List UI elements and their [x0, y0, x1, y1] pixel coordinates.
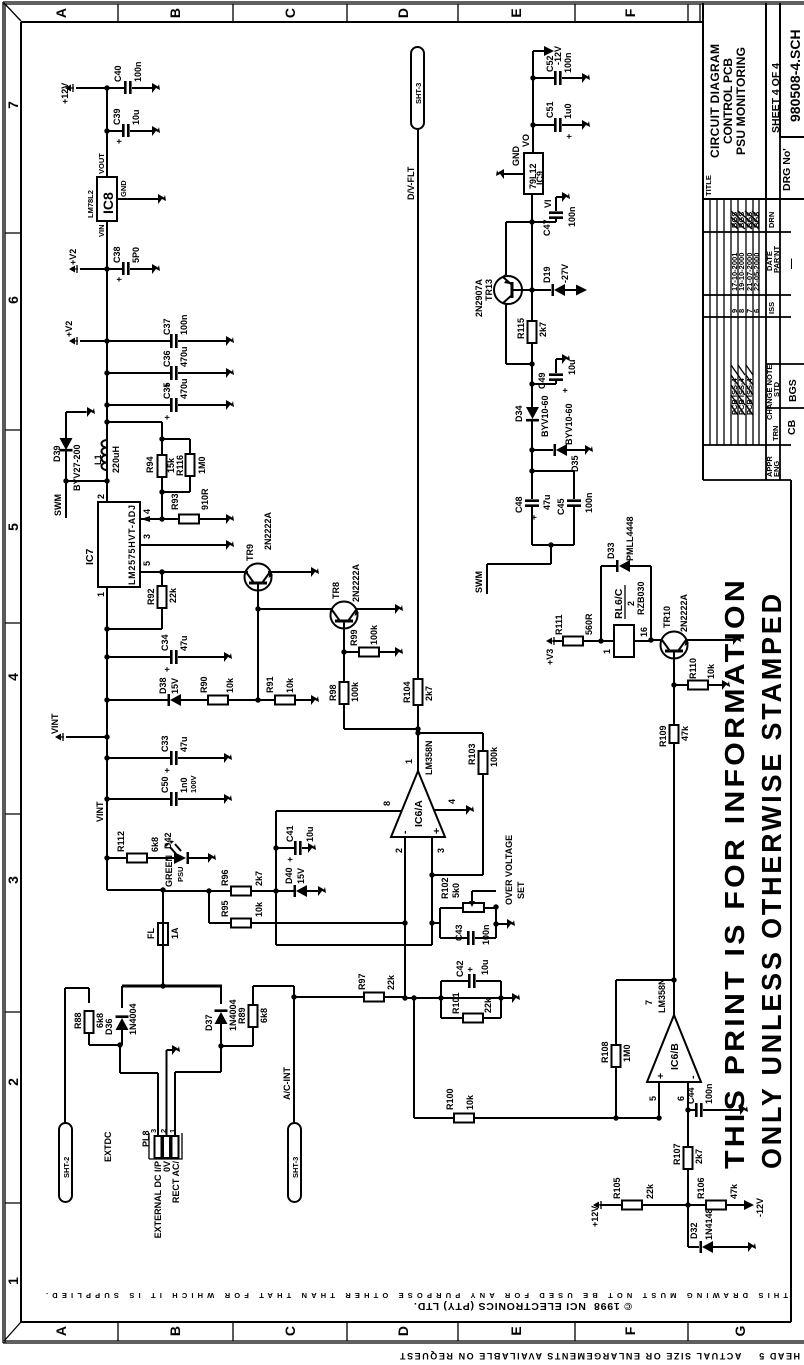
junction base TR8 drop	[255, 606, 260, 611]
svg-text:7: 7	[5, 101, 21, 109]
svg-text:100k: 100k	[369, 624, 379, 645]
node -12V output wire	[533, 51, 544, 153]
svg-text:100n: 100n	[704, 1083, 714, 1104]
pin 4 wire of IC7 with arrow	[140, 509, 162, 522]
zener D40 15V	[284, 867, 326, 897]
junction D39 rail	[104, 478, 109, 483]
regulator IC9 79L12	[511, 134, 553, 208]
svg-text:R93: R93	[170, 493, 180, 510]
resistor R115 2k7	[516, 318, 548, 343]
svg-text:5: 5	[142, 561, 152, 566]
svg-text:R106: R106	[696, 1177, 706, 1199]
svg-text:1: 1	[404, 759, 414, 764]
svg-text:10k: 10k	[465, 1094, 475, 1110]
svg-text:C50: C50	[160, 776, 170, 793]
junction C50 rail	[104, 796, 109, 801]
svg-text:2k7: 2k7	[424, 686, 434, 701]
svg-text:RZB030: RZB030	[636, 581, 646, 615]
svg-text:GREEN: GREEN	[164, 855, 174, 887]
junction R116 left	[159, 489, 164, 494]
svg-text:2k7: 2k7	[538, 322, 548, 337]
junction C35 rail	[104, 402, 109, 407]
svg-text:10u: 10u	[480, 959, 490, 975]
led D42 GREEN PSU	[163, 832, 216, 887]
svg-text:SET: SET	[516, 881, 526, 899]
svg-text:R91: R91	[265, 676, 275, 693]
svg-text:LM358N: LM358N	[424, 740, 434, 775]
svg-text:CB: CB	[786, 419, 798, 435]
svg-text:R96: R96	[220, 869, 230, 886]
pin 1 output wire IC6/A	[404, 733, 418, 771]
resistor R116 1M0 parallel loop	[162, 439, 207, 492]
resistor R93 910R	[162, 488, 234, 524]
junction SWM D39	[63, 478, 68, 483]
junction TR13 collector rail	[529, 361, 534, 366]
svg-text:A/C-INT: A/C-INT	[282, 1067, 292, 1100]
svg-text:+: +	[431, 828, 443, 834]
svg-text:2: 2	[96, 494, 106, 499]
junction pin3 R103 riser	[429, 872, 434, 877]
pin 2 wire IC6/A	[394, 837, 405, 998]
diode D33 PMLL4448 flyback	[601, 516, 651, 641]
node D/V-FLT line	[417, 129, 419, 729]
left band row ticks	[118, 1322, 688, 1341]
top band column ticks	[5, 233, 21, 1203]
svg-text:THIS PRINT IS FOR INFORMATION: THIS PRINT IS FOR INFORMATION	[719, 577, 750, 1169]
resistor R91 10k	[258, 676, 319, 705]
junction R92 pin5	[159, 569, 164, 574]
loop sides C48 C45	[532, 471, 574, 545]
svg-text:47k: 47k	[729, 1183, 739, 1199]
svg-text:GND: GND	[511, 146, 521, 167]
svg-text:SHT-3: SHT-3	[291, 1157, 300, 1178]
svg-text:+: +	[285, 857, 295, 862]
svg-text:22-05-2000: 22-05-2000	[752, 253, 761, 291]
svg-text:CONTROL PCB: CONTROL PCB	[721, 58, 735, 144]
wire R94 node to rail drop	[107, 422, 162, 519]
svg-text:TRN: TRN	[771, 426, 780, 441]
opamp IC6/A LM358N	[391, 740, 445, 837]
diode D37 1N4004	[204, 986, 238, 1046]
wire PL8 pin1	[175, 1046, 221, 1136]
power flag VINT	[50, 713, 107, 741]
resistor R110 10k	[674, 658, 730, 690]
svg-text:16: 16	[639, 627, 649, 637]
svg-text:B: B	[167, 1326, 183, 1336]
junction C49 rail	[529, 381, 534, 386]
svg-text:+: +	[655, 1073, 667, 1079]
pin 5 wire IC6/B	[648, 1082, 659, 1118]
svg-text:IC6/A: IC6/A	[413, 800, 425, 827]
svg-text:R108: R108	[600, 1041, 610, 1063]
svg-text:910R: 910R	[200, 488, 210, 510]
svg-text:CIRCUIT DIAGRAM: CIRCUIT DIAGRAM	[708, 44, 722, 158]
ground IC8 gnd pin	[117, 194, 166, 204]
svg-text:R90: R90	[199, 676, 209, 693]
svg-text:C: C	[282, 1326, 298, 1336]
resistor R95 10k	[209, 891, 405, 928]
svg-text:D37: D37	[204, 1014, 214, 1031]
svg-text:1n0: 1n0	[179, 777, 189, 793]
svg-text:VO: VO	[521, 134, 531, 147]
power flag +V3	[545, 637, 555, 665]
svg-text:BGS: BGS	[787, 379, 799, 402]
revision table labels	[765, 212, 781, 477]
wire EXTDC to sheet flag	[64, 988, 66, 1123]
label over voltage set	[504, 835, 526, 905]
svg-text:100k: 100k	[350, 681, 360, 702]
svg-text:3: 3	[149, 1129, 158, 1133]
node pin2 column	[405, 997, 501, 999]
svg-text:1N4148: 1N4148	[704, 1208, 714, 1240]
regulator IC8 LM78L2	[86, 153, 128, 237]
zener D19 27V	[532, 264, 587, 296]
junction VINT rail	[104, 734, 109, 739]
svg-text:EXTDC: EXTDC	[103, 1131, 113, 1162]
junction loop D35 line	[529, 468, 534, 473]
junction C33 rail	[104, 755, 109, 760]
svg-text:ENG: ENG	[772, 461, 781, 477]
svg-text:SHEET 4 OF 4: SHEET 4 OF 4	[770, 63, 782, 133]
junction C37 rail	[104, 338, 109, 343]
junction C42 top	[438, 995, 443, 1000]
resistor R99 100k	[344, 624, 403, 657]
junction R103 output	[415, 730, 420, 735]
wire R100 branch	[414, 998, 454, 1118]
svg-text:470u: 470u	[179, 378, 189, 399]
svg-text:IC7: IC7	[84, 549, 96, 566]
svg-text:2: 2	[5, 1078, 21, 1086]
regulator IC7 LM2575HVT-ADJ	[84, 494, 140, 597]
svg-text:7: 7	[644, 1000, 654, 1005]
svg-text:IC9: IC9	[535, 171, 545, 185]
svg-text:R100: R100	[445, 1088, 455, 1110]
svg-text:2N2222A: 2N2222A	[679, 593, 689, 632]
zener D38 15V	[107, 677, 208, 706]
svg-text:D32: D32	[689, 1222, 699, 1239]
junction D37 R89 node	[218, 1043, 223, 1048]
junction D38 rail	[104, 697, 109, 702]
svg-text:22k: 22k	[386, 974, 396, 990]
junction R108 R100 column	[613, 1115, 618, 1120]
svg-text:R110: R110	[688, 658, 698, 679]
svg-text:TR8: TR8	[331, 582, 341, 599]
svg-text:D34: D34	[514, 405, 524, 422]
svg-text:PSU: PSU	[176, 867, 185, 882]
junction pin4 R94 node	[159, 516, 164, 521]
junction R116 right	[159, 436, 164, 441]
pin 4 ground IC6/A	[434, 799, 474, 815]
junction R92 rail	[104, 626, 109, 631]
junction R98 output	[415, 726, 420, 731]
svg-text:1: 1	[5, 1277, 21, 1285]
svg-text:+: +	[162, 768, 172, 773]
stamp text: this print is for information	[719, 577, 787, 1169]
svg-text:5: 5	[5, 523, 21, 531]
junction rail drop R94	[104, 419, 109, 424]
pin 6 wire IC6/B	[676, 1082, 688, 1147]
svg-text:22k: 22k	[483, 997, 493, 1013]
inductor L1 220uH	[93, 440, 121, 473]
svg-text:R99: R99	[349, 629, 359, 646]
diode D34 BYV10-60	[514, 384, 550, 437]
svg-text:C42: C42	[455, 960, 465, 977]
svg-text:R88: R88	[73, 1012, 83, 1029]
svg-text:E: E	[508, 8, 524, 17]
svg-text:D33: D33	[606, 542, 616, 559]
svg-text:FL: FL	[146, 928, 156, 939]
resistor R92 22k	[107, 572, 178, 629]
svg-text:1: 1	[96, 592, 106, 597]
svg-text:© 1998 NCI ELECTRONICS (PTY): © 1998 NCI ELECTRONICS (PTY) LTD.	[414, 1300, 632, 1312]
capacitor C43 100n	[440, 923, 496, 945]
wire ref node line	[276, 811, 432, 945]
svg-text:+: +	[465, 967, 475, 972]
svg-text:C43: C43	[454, 924, 464, 941]
junction R112 rail	[104, 855, 109, 860]
resistor R98 100k	[328, 652, 418, 729]
svg-text:C37: C37	[162, 318, 172, 335]
svg-text:SWM: SWM	[53, 494, 63, 516]
revision entries hatching	[731, 211, 759, 415]
title text CIRCUIT DIAGRAM	[708, 44, 748, 158]
svg-text:TR13: TR13	[484, 279, 494, 301]
capacitor C51 1u0	[530, 101, 590, 139]
svg-text:BYV10-60: BYV10-60	[540, 395, 550, 437]
svg-text:TITLE: TITLE	[704, 175, 713, 196]
resistor R103 100k	[418, 733, 499, 875]
pin 5 wire of IC7	[140, 561, 248, 572]
svg-text:100n: 100n	[481, 924, 491, 945]
right band row ticks	[118, 4, 700, 22]
resistor R96 2k7	[163, 869, 295, 895]
svg-text:R111: R111	[554, 614, 564, 635]
junction pin3 C43	[429, 920, 434, 925]
svg-text:+: +	[114, 277, 124, 282]
frame corner diagonals	[4, 3, 21, 1341]
svg-text:VI: VI	[543, 199, 553, 208]
resistor R109 47k	[658, 725, 690, 747]
svg-text:3: 3	[436, 848, 446, 853]
svg-text:6k8: 6k8	[95, 1013, 105, 1028]
junction R95 top column	[206, 888, 211, 893]
svg-text:D: D	[395, 1326, 411, 1336]
svg-text:DRG No': DRG No'	[781, 148, 793, 191]
capacitor C39	[107, 108, 160, 144]
power flag +V2 at IC8 input	[68, 249, 107, 273]
svg-text:VOUT: VOUT	[97, 153, 106, 174]
svg-text:+12V: +12V	[590, 1206, 600, 1227]
junction C39 rail	[104, 128, 109, 133]
svg-text:ONLY UNLESS OTHERWISE STAMPED: ONLY UNLESS OTHERWISE STAMPED	[756, 591, 787, 1169]
svg-text:PSU MONITORING: PSU MONITORING	[734, 47, 748, 155]
svg-text:R112: R112	[116, 831, 126, 852]
svg-text:6: 6	[752, 309, 761, 313]
svg-text:ISS: ISS	[767, 302, 776, 314]
svg-text:A: A	[53, 8, 69, 18]
svg-text:-: -	[399, 830, 411, 834]
svg-text:RL6/C: RL6/C	[613, 588, 625, 619]
transistor TR9 2N2222A	[230, 511, 319, 590]
transistor TR8 2N2222A	[258, 563, 403, 628]
capacitor C48 47u	[514, 471, 552, 545]
svg-text:47k: 47k	[680, 725, 690, 741]
svg-text:8: 8	[382, 801, 392, 806]
junction TR13 base rail	[529, 287, 534, 292]
svg-text:2k7: 2k7	[694, 1149, 704, 1164]
svg-text:C52: C52	[545, 55, 555, 72]
svg-text:STD: STD	[772, 381, 781, 397]
svg-text:TR10: TR10	[662, 606, 672, 628]
svg-text:1: 1	[602, 649, 612, 654]
svg-text:4: 4	[5, 673, 21, 681]
svg-text:DRN: DRN	[767, 212, 776, 228]
svg-text:10u: 10u	[131, 109, 141, 125]
opamp IC6/B LM358N	[647, 978, 701, 1082]
pin 3 wire of IC7	[140, 534, 234, 550]
resistor R97 22k	[294, 973, 405, 1001]
svg-text:D42: D42	[163, 832, 173, 849]
svg-text:2N2222A: 2N2222A	[351, 563, 361, 602]
junction base R90 R91	[255, 697, 260, 702]
svg-text:100n: 100n	[563, 52, 573, 73]
svg-text:R105: R105	[612, 1177, 622, 1199]
right band letters A-F	[53, 8, 638, 18]
svg-text:5k0: 5k0	[451, 883, 461, 898]
svg-text:C49: C49	[537, 372, 547, 389]
net label SWM right	[474, 545, 551, 594]
svg-text:47u: 47u	[179, 635, 189, 651]
svg-text:47u: 47u	[179, 736, 189, 752]
svg-text:R107: R107	[672, 1143, 682, 1165]
junction R97 pin2	[402, 995, 407, 1000]
svg-text:+V2: +V2	[68, 249, 78, 265]
svg-text:SWM: SWM	[474, 571, 484, 593]
svg-text:C45: C45	[556, 498, 566, 515]
svg-text:10u: 10u	[305, 826, 315, 842]
junction A/C-INT R97	[291, 994, 296, 999]
svg-text:15V: 15V	[296, 868, 306, 884]
wire A/C-INT to sheet flag	[293, 986, 295, 1123]
svg-text:A: A	[53, 1326, 69, 1336]
svg-text:3: 3	[5, 876, 21, 884]
junction fuse rail column	[160, 887, 165, 892]
node VINT main rail wire	[106, 88, 108, 890]
svg-text:C40: C40	[113, 65, 123, 82]
junction D33 bottom	[648, 637, 653, 642]
svg-text:100n: 100n	[179, 314, 189, 335]
resistor R111 560R	[553, 613, 601, 646]
svg-text:R94: R94	[145, 456, 155, 473]
resistor R89 6k8	[221, 986, 294, 1046]
svg-text:RECT AC/: RECT AC/	[171, 1161, 181, 1204]
svg-text:IC6/B: IC6/B	[669, 1043, 681, 1070]
resistor R106 47k	[688, 1177, 765, 1217]
svg-text:22k: 22k	[168, 587, 178, 603]
resistor R108 1M0	[600, 980, 674, 1118]
capacitor C38	[107, 246, 160, 282]
svg-text:100n: 100n	[133, 61, 143, 82]
wire loop to D34	[531, 419, 533, 471]
top band numbers 1-7	[5, 101, 21, 1285]
svg-text:D39: D39	[52, 445, 62, 462]
svg-text:R95: R95	[220, 900, 230, 917]
fuse FL 1A	[146, 890, 180, 986]
junction R110 base	[671, 682, 676, 687]
svg-text:2k7: 2k7	[254, 871, 264, 886]
svg-text:D/V-FLT: D/V-FLT	[406, 166, 416, 200]
capacitor C52 100n	[530, 52, 590, 85]
svg-text:2N2907A: 2N2907A	[474, 278, 484, 317]
capacitor C40	[113, 61, 160, 94]
svg-text:TR9: TR9	[245, 544, 255, 561]
capacitor C41 10u	[276, 825, 316, 862]
svg-text:G: G	[732, 1325, 748, 1336]
resistor R94 15k	[145, 455, 176, 477]
svg-text:PMLL4448: PMLL4448	[625, 516, 635, 561]
node raw dc bus vertical	[122, 985, 222, 988]
wire D39 to rail junction	[66, 480, 107, 482]
svg-text:10u: 10u	[567, 359, 577, 375]
resistor R88 6k8	[65, 988, 120, 1045]
svg-text:R98: R98	[328, 684, 338, 701]
connector PL8	[141, 1129, 182, 1159]
resistor R101 22k	[441, 981, 501, 1023]
svg-text:R97: R97	[357, 973, 367, 990]
svg-text:220uH: 220uH	[111, 446, 121, 473]
resistor R112 6k8	[107, 831, 174, 863]
capacitor C50 1n0 100V	[107, 775, 232, 806]
svg-text:VINT: VINT	[95, 801, 105, 822]
svg-text:C47: C47	[542, 219, 552, 236]
svg-text:10k: 10k	[285, 677, 295, 693]
capacitor C47 100n	[532, 192, 577, 236]
svg-text:C44: C44	[686, 1087, 696, 1104]
junction pin2 R95	[402, 920, 407, 925]
svg-text:+V2: +V2	[64, 321, 74, 337]
capacitor C44 100n	[685, 1083, 748, 1117]
resistor R105 22k	[600, 1177, 688, 1209]
sheet flag SHT-3 upper	[411, 47, 424, 129]
svg-text:5P0: 5P0	[131, 247, 141, 263]
node negative rail wire	[531, 194, 533, 384]
svg-text:BYV10-60: BYV10-60	[564, 403, 574, 445]
svg-text:D38: D38	[158, 677, 168, 694]
resistor R100 10k	[445, 1088, 659, 1122]
svg-text:C36: C36	[162, 350, 172, 367]
svg-text:OVER VOLTAGE: OVER VOLTAGE	[504, 835, 514, 905]
junction R100 branch	[411, 995, 416, 1000]
svg-text:15V: 15V	[170, 678, 180, 694]
svg-text:—: —	[785, 258, 797, 269]
svg-text:HEAD 5 ACTUAL SIZE OR ENLAR: HEAD 5 ACTUAL SIZE OR ENLARGEMENTS AVAIL…	[399, 1351, 800, 1361]
svg-text:10k: 10k	[254, 901, 264, 917]
wire PL8 pin2 to ground	[167, 1045, 181, 1136]
junction R102 wiper	[493, 904, 498, 909]
wire output to TR10 base	[673, 685, 675, 980]
wire TR8 base line	[343, 621, 345, 652]
capacitor C34 47u	[107, 634, 232, 672]
junction R99 base	[341, 649, 346, 654]
junction C36 rail	[104, 370, 109, 375]
svg-text:LM2575HVT-ADJ: LM2575HVT-ADJ	[127, 505, 137, 585]
capacitor C36	[107, 346, 234, 388]
svg-text:C39: C39	[112, 108, 122, 125]
svg-text:+: +	[162, 667, 172, 672]
svg-text:D19: D19	[542, 266, 552, 283]
power flag +V2 at cap bank	[64, 321, 107, 345]
junction D33 top	[598, 638, 603, 643]
